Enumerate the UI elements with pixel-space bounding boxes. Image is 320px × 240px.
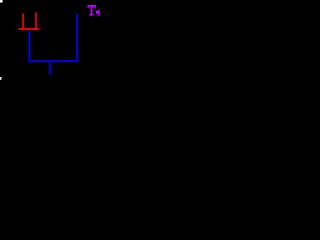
- cropped white tick-label fragment top-left: [0, 0, 3, 3]
- node label T_q : subscript q: [96, 10, 100, 16]
- background: [0, 0, 136, 82]
- wire: center stub down (to cropped ground/capacitor): [49, 62, 51, 74]
- wire: right vertical up to node Tg: [76, 14, 78, 61]
- wire: bottom horizontal: [29, 60, 78, 62]
- resistor R (red element, partial) : left lead: [22, 14, 24, 29]
- cropped white tick-label fragment bottom-left: [0, 77, 2, 80]
- wire: left vertical from resistor down: [28, 30, 30, 61]
- resistor R (red element, partial) : right lead: [35, 12, 37, 29]
- resistor R (red element, partial) : bottom bar: [19, 28, 40, 30]
- node label T_q : letter T: [88, 5, 97, 16]
